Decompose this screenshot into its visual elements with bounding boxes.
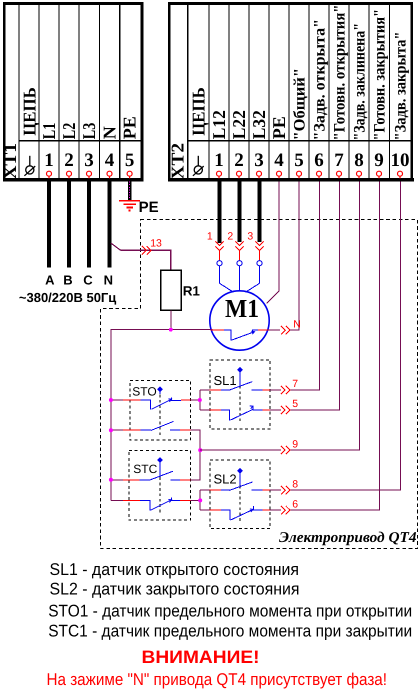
- switch box SL1 dashed: [210, 360, 270, 429]
- svg-text:5: 5: [125, 150, 135, 171]
- svg-text:STC: STC: [133, 462, 157, 476]
- wire stubs to motor plugs: [220, 251, 260, 261]
- svg-text:STC1 - датчик предельного моме: STC1 - датчик предельного момента при за…: [48, 621, 412, 640]
- arrow wire 13: [142, 246, 151, 254]
- switch STO contact 2: [123, 421, 191, 430]
- svg-text:6: 6: [292, 499, 298, 511]
- svg-text:На зажиме "N" привода QT4 прис: На зажиме "N" привода QT4 присутствует ф…: [47, 670, 388, 689]
- motor thermal switch right lead: [258, 329, 269, 331]
- wire STO sw2 and STC sw1 to node 9: [191, 430, 201, 480]
- arrow wire N: [281, 326, 290, 334]
- svg-text:SL1: SL1: [214, 373, 237, 388]
- wire L32 from XT2-3: [257, 182, 261, 242]
- svg-text:A: A: [45, 273, 55, 288]
- wire PE from XT1-5: [128, 182, 131, 200]
- svg-text:"Задв. закрыта": "Задв. закрыта": [393, 32, 410, 141]
- wire SL1 left vertical: [199, 390, 201, 410]
- wire STC sw2 to SL2: [191, 499, 201, 501]
- switch STC contact 2: [123, 498, 191, 511]
- wire 6 out to XT2-9: [270, 182, 379, 511]
- switch box SL2 dashed: [210, 460, 270, 528]
- svg-text:2: 2: [234, 150, 244, 171]
- wire 13 tap from N to R1: [111, 243, 171, 270]
- XT2 terminal pins 1-10: [217, 171, 403, 178]
- svg-text:N: N: [293, 318, 301, 330]
- arrow wire 7: [281, 386, 290, 394]
- switch SL2 contact 2 wire 6: [210, 506, 271, 520]
- wire motor N out: [269, 329, 281, 331]
- wire 9 out to XT2-8: [200, 182, 359, 451]
- arrow wire 6: [281, 506, 290, 514]
- svg-text:10: 10: [391, 150, 410, 171]
- wire bus corner to STC sw2: [111, 499, 123, 501]
- svg-text:7: 7: [334, 150, 344, 171]
- svg-text:STO1 - датчик предельного моме: STO1 - датчик предельного момента при от…: [48, 601, 412, 620]
- svg-text:ЦЕПЬ: ЦЕПЬ: [19, 87, 39, 136]
- svg-text:8: 8: [292, 479, 298, 491]
- svg-text:"Общий": "Общий": [292, 68, 309, 141]
- wire motor lead V: [239, 266, 241, 291]
- svg-text:N: N: [104, 273, 113, 288]
- svg-text:ЦЕПЬ: ЦЕПЬ: [189, 87, 209, 136]
- wire L2 phase B from XT1-2: [67, 182, 71, 268]
- switch STC contact 1: [123, 471, 191, 480]
- svg-text:N: N: [99, 126, 119, 139]
- linkage SL2: [239, 486, 241, 522]
- svg-text:XT1: XT1: [0, 143, 20, 180]
- svg-text:L2: L2: [59, 123, 79, 140]
- wire N from XT1-4: [107, 182, 111, 268]
- svg-text:3: 3: [254, 150, 264, 171]
- svg-text:XT2: XT2: [168, 143, 188, 180]
- wire L22 from XT2-2: [237, 182, 241, 242]
- switch SL1 contact 2 wire 5: [210, 406, 271, 420]
- resistor R1: [161, 270, 182, 310]
- svg-text:C: C: [83, 273, 93, 288]
- junction SL1 left: [198, 398, 202, 402]
- wire 7 out to XT2-6: [270, 182, 319, 390]
- actuator diamond SL2: [237, 468, 243, 486]
- svg-text:L22: L22: [229, 110, 249, 139]
- svg-text:9: 9: [374, 150, 384, 171]
- svg-text:1: 1: [207, 230, 213, 242]
- connector pins U V W: [217, 261, 262, 266]
- svg-text:3: 3: [247, 230, 253, 242]
- motor M1 circle: [210, 291, 269, 350]
- linkage SL1: [239, 386, 241, 423]
- svg-text:"Готовн. открытия": "Готовн. открытия": [332, 5, 349, 141]
- svg-text:1: 1: [44, 150, 54, 171]
- arrow wire 3: [255, 241, 263, 250]
- arrow wire 8: [281, 486, 290, 494]
- enclosure Электропривод QT4 dashed boundary: [100, 220, 417, 549]
- svg-text:"Задв. заклинена": "Задв. заклинена": [352, 23, 369, 141]
- XT1 screw symbol: [24, 156, 35, 176]
- wire common bus left: [111, 330, 171, 501]
- switch STO contact 1: [123, 397, 191, 409]
- motor thermal switch: [224, 330, 258, 340]
- wire 5 out to XT2-7: [270, 182, 339, 410]
- svg-text:PE: PE: [269, 116, 289, 139]
- switch SL2 contact 1 wire 8: [210, 482, 271, 490]
- svg-text:~380/220В 50Гц: ~380/220В 50Гц: [19, 290, 116, 305]
- XT2 screw symbol: [193, 156, 204, 176]
- XT1 terminal pins 1-5: [47, 171, 133, 178]
- svg-text:"Готовн. закрытия": "Готовн. закрытия": [372, 9, 389, 141]
- svg-text:3: 3: [84, 150, 94, 171]
- wire N arrow to XT2-5: [290, 329, 299, 331]
- switch box STO dashed: [130, 380, 191, 440]
- svg-text:5: 5: [292, 398, 298, 410]
- wire SL2 left vertical: [199, 490, 201, 510]
- actuator diamond STO: [157, 386, 163, 394]
- wire Общий from XT2-5 down to motor N: [294, 182, 299, 331]
- svg-text:7: 7: [292, 378, 298, 390]
- wire to SL2 sw1: [200, 489, 209, 491]
- svg-text:L3: L3: [79, 123, 99, 140]
- junction SL2 left: [198, 498, 202, 502]
- wire to SL1 sw1: [200, 389, 210, 391]
- wire 8 out to XT2-10: [270, 182, 401, 491]
- svg-text:Электропривод QT4: Электропривод QT4: [279, 530, 417, 546]
- wire L1 phase A from XT1-1: [47, 182, 51, 268]
- svg-text:4: 4: [274, 150, 284, 171]
- svg-text:6: 6: [314, 150, 324, 171]
- svg-text:L32: L32: [249, 110, 269, 139]
- wire L3 phase C from XT1-3: [87, 182, 91, 268]
- svg-text:ВНИМАНИЕ!: ВНИМАНИЕ!: [142, 647, 260, 667]
- junction node 9: [198, 448, 202, 452]
- svg-text:"Задв. открыта": "Задв. открыта": [312, 19, 329, 141]
- svg-text:5: 5: [294, 150, 304, 171]
- junction bus STO2: [109, 428, 113, 432]
- wire to SL2 sw2: [200, 509, 209, 511]
- wire bus to STO sw1: [111, 399, 123, 401]
- svg-text:1: 1: [214, 150, 224, 171]
- terminal block XT2: [168, 4, 414, 180]
- svg-text:L12: L12: [209, 110, 229, 139]
- actuator diamond STC: [157, 457, 163, 477]
- wire STO sw1 to SL1: [191, 399, 200, 401]
- arrow wire 9: [281, 446, 290, 454]
- terminal block XT1: [0, 4, 143, 180]
- svg-text:B: B: [63, 273, 72, 288]
- svg-text:9: 9: [292, 438, 298, 450]
- wire bus to STO sw2: [111, 429, 123, 431]
- svg-text:SL2: SL2: [214, 472, 237, 487]
- svg-text:SL1 - датчик открытого состоян: SL1 - датчик открытого состояния: [50, 560, 300, 579]
- ground PE symbol: [119, 201, 140, 211]
- motor thermal switch left lead: [211, 329, 224, 331]
- svg-text:SL2 - датчик закрытого состоян: SL2 - датчик закрытого состояния: [50, 580, 300, 599]
- wire L12 from XT2-1: [217, 182, 221, 243]
- arrow wire 5: [281, 406, 290, 414]
- arrow wire 2: [235, 241, 243, 250]
- svg-text:STO: STO: [132, 384, 156, 398]
- wire node to motor: [171, 329, 213, 331]
- junction bus STC1: [109, 478, 113, 482]
- linkage STC: [159, 477, 161, 513]
- switch box STC dashed: [129, 451, 191, 521]
- svg-text:8: 8: [354, 150, 364, 171]
- wire R1 bottom to node: [170, 310, 172, 329]
- actuator diamond SL1: [237, 367, 243, 386]
- svg-text:4: 4: [105, 150, 115, 171]
- arrow wire 1: [215, 241, 223, 250]
- junction node R1/bus: [169, 328, 173, 332]
- wire motor lead U: [220, 266, 234, 293]
- svg-text:L1: L1: [39, 123, 59, 140]
- wire PE to motor frame from XT2-4: [267, 182, 279, 304]
- wire to SL1 sw2: [200, 409, 210, 411]
- svg-text:R1: R1: [183, 284, 201, 299]
- wire motor lead W: [245, 266, 259, 293]
- svg-text:2: 2: [227, 230, 233, 242]
- svg-text:PE: PE: [120, 116, 140, 139]
- junction bus STO1: [109, 398, 113, 402]
- wire bus to STC sw1: [111, 479, 123, 481]
- svg-text:М1: М1: [225, 294, 259, 323]
- svg-text:13: 13: [150, 238, 162, 250]
- switch SL1 contact 1 wire 7: [210, 382, 271, 391]
- linkage STO: [159, 395, 161, 438]
- svg-text:2: 2: [64, 150, 74, 171]
- svg-text:PE: PE: [139, 199, 159, 216]
